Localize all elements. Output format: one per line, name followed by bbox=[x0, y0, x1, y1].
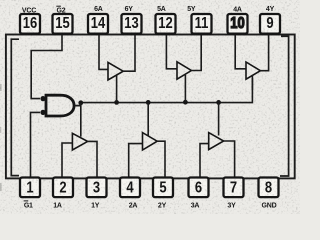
pin 9 bbox=[260, 14, 280, 34]
wire T3 enable to bus bbox=[251, 75, 253, 90]
pin 2 bbox=[53, 178, 73, 198]
wire pin14 6A to buffer T1 input bbox=[99, 34, 108, 69]
wire T2 enable to bus bbox=[184, 75, 186, 102]
pin 16 bbox=[20, 14, 40, 34]
wire pin6 3A to buffer B3 input bbox=[200, 144, 209, 177]
pin 1 bbox=[20, 178, 40, 198]
pin 15 bbox=[53, 14, 73, 34]
pin 13 bbox=[122, 14, 142, 34]
wire pin4 2A to buffer B2 input bbox=[129, 144, 142, 177]
op-amp U1 enable AND gate body bbox=[46, 95, 74, 116]
pin 6 bbox=[189, 178, 209, 198]
buffer B3 (3A to 3Y) bbox=[209, 133, 224, 150]
U1 inverting input bubble lower bbox=[40, 110, 45, 115]
wire pin10 4A to buffer T3 input bbox=[235, 34, 245, 69]
wire T2 output to pin11 5Y bbox=[191, 34, 201, 71]
pin 7 bbox=[224, 178, 244, 198]
U1 inverting input bubble upper bbox=[40, 96, 45, 101]
wire B2 enable to bus bbox=[147, 102, 149, 136]
IC body outline bbox=[6, 35, 295, 179]
buffer B2 (2A to 2Y) bbox=[143, 133, 158, 150]
wire inner-left (pin16 side rail to pin1 side) bbox=[11, 39, 19, 175]
wire pin15 G2 to U1 upper input bbox=[31, 34, 62, 99]
buffer T3 (4A to 4Y) bbox=[246, 62, 260, 79]
node junction dot 4 bbox=[183, 100, 188, 105]
wire B2 output to pin5 2Y bbox=[157, 141, 165, 177]
pin 12 bbox=[156, 14, 176, 34]
wire T3 output to pin9 4Y bbox=[260, 34, 269, 71]
wire T1 enable to bus bbox=[116, 76, 118, 103]
node junction dot 2 bbox=[114, 100, 119, 105]
pin 14 bbox=[88, 14, 108, 34]
wire pin12 5A to buffer T2 input bbox=[166, 34, 176, 69]
buffer T2 (5A to 5Y) bbox=[177, 62, 191, 79]
wire inner-right (pin9 side rail to pin8 side) bbox=[280, 36, 289, 176]
pin 4 bbox=[120, 178, 140, 198]
pin 3 bbox=[87, 178, 107, 198]
wire T1 output to pin13 6Y bbox=[123, 34, 135, 71]
node junction dot 3 bbox=[146, 100, 151, 105]
wire B1 enable to bus bbox=[80, 103, 82, 137]
wire pin2 1A to buffer B1 input bbox=[62, 143, 72, 177]
scan mark left edge bbox=[0, 84, 2, 91]
pin 8 bbox=[259, 178, 279, 198]
buffer B1 (1A to 1Y) bbox=[72, 133, 87, 150]
pin 11 bbox=[192, 14, 212, 34]
node junction dot 5 bbox=[216, 100, 221, 105]
wire B3 enable to bus bbox=[218, 102, 220, 135]
wire U1 output nub bbox=[75, 105, 81, 107]
pin 5 bbox=[153, 178, 173, 198]
buffer T1 (6A to 6Y) bbox=[108, 62, 123, 80]
wire B1 output to pin3 1Y bbox=[87, 141, 97, 177]
wire B3 output to pin7 3Y bbox=[223, 141, 235, 177]
pin 10 bbox=[228, 14, 248, 34]
wire pin1 G1 to U1 lower input bbox=[31, 112, 41, 178]
wire enable bus bbox=[80, 78, 252, 103]
scan speckle noise bbox=[0, 0, 1, 1]
node junction dot 1 bbox=[78, 100, 83, 105]
